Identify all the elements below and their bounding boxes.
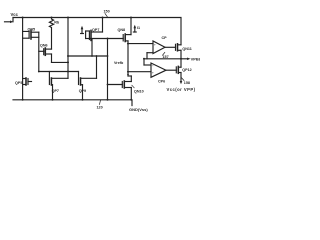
svg-text:Rb: Rb [54, 20, 60, 24]
svg-text:−: − [152, 64, 154, 68]
svg-text:VPBL: VPBL [191, 57, 200, 62]
svg-text:+: + [152, 71, 154, 75]
svg-text:QN8: QN8 [118, 28, 126, 32]
svg-text:+: + [154, 43, 156, 47]
svg-text:CP: CP [162, 36, 168, 40]
svg-text:QN6: QN6 [40, 44, 48, 48]
svg-text:QN5: QN5 [28, 28, 36, 32]
svg-text:CP6: CP6 [158, 79, 165, 83]
svg-text:120: 120 [97, 106, 103, 110]
svg-text:I1: I1 [137, 26, 140, 30]
svg-text:QN10: QN10 [134, 90, 144, 94]
svg-text:GND(Vss): GND(Vss) [129, 107, 148, 112]
svg-text:150: 150 [104, 10, 110, 14]
svg-text:157: 157 [163, 55, 169, 59]
svg-text:QP9: QP9 [79, 89, 86, 93]
svg-text:QP7: QP7 [52, 89, 59, 93]
svg-text:Vcc: Vcc [11, 12, 19, 17]
svg-text:QP12: QP12 [182, 68, 191, 72]
svg-text:158: 158 [184, 81, 190, 85]
svg-text:QP7: QP7 [92, 28, 99, 32]
svg-text:QN11: QN11 [182, 47, 191, 51]
svg-text:Vrefb: Vrefb [114, 61, 124, 65]
svg-text:Vcc(or VPP): Vcc(or VPP) [167, 87, 196, 92]
svg-text:QP5: QP5 [15, 81, 22, 85]
svg-text:−: − [154, 51, 156, 55]
